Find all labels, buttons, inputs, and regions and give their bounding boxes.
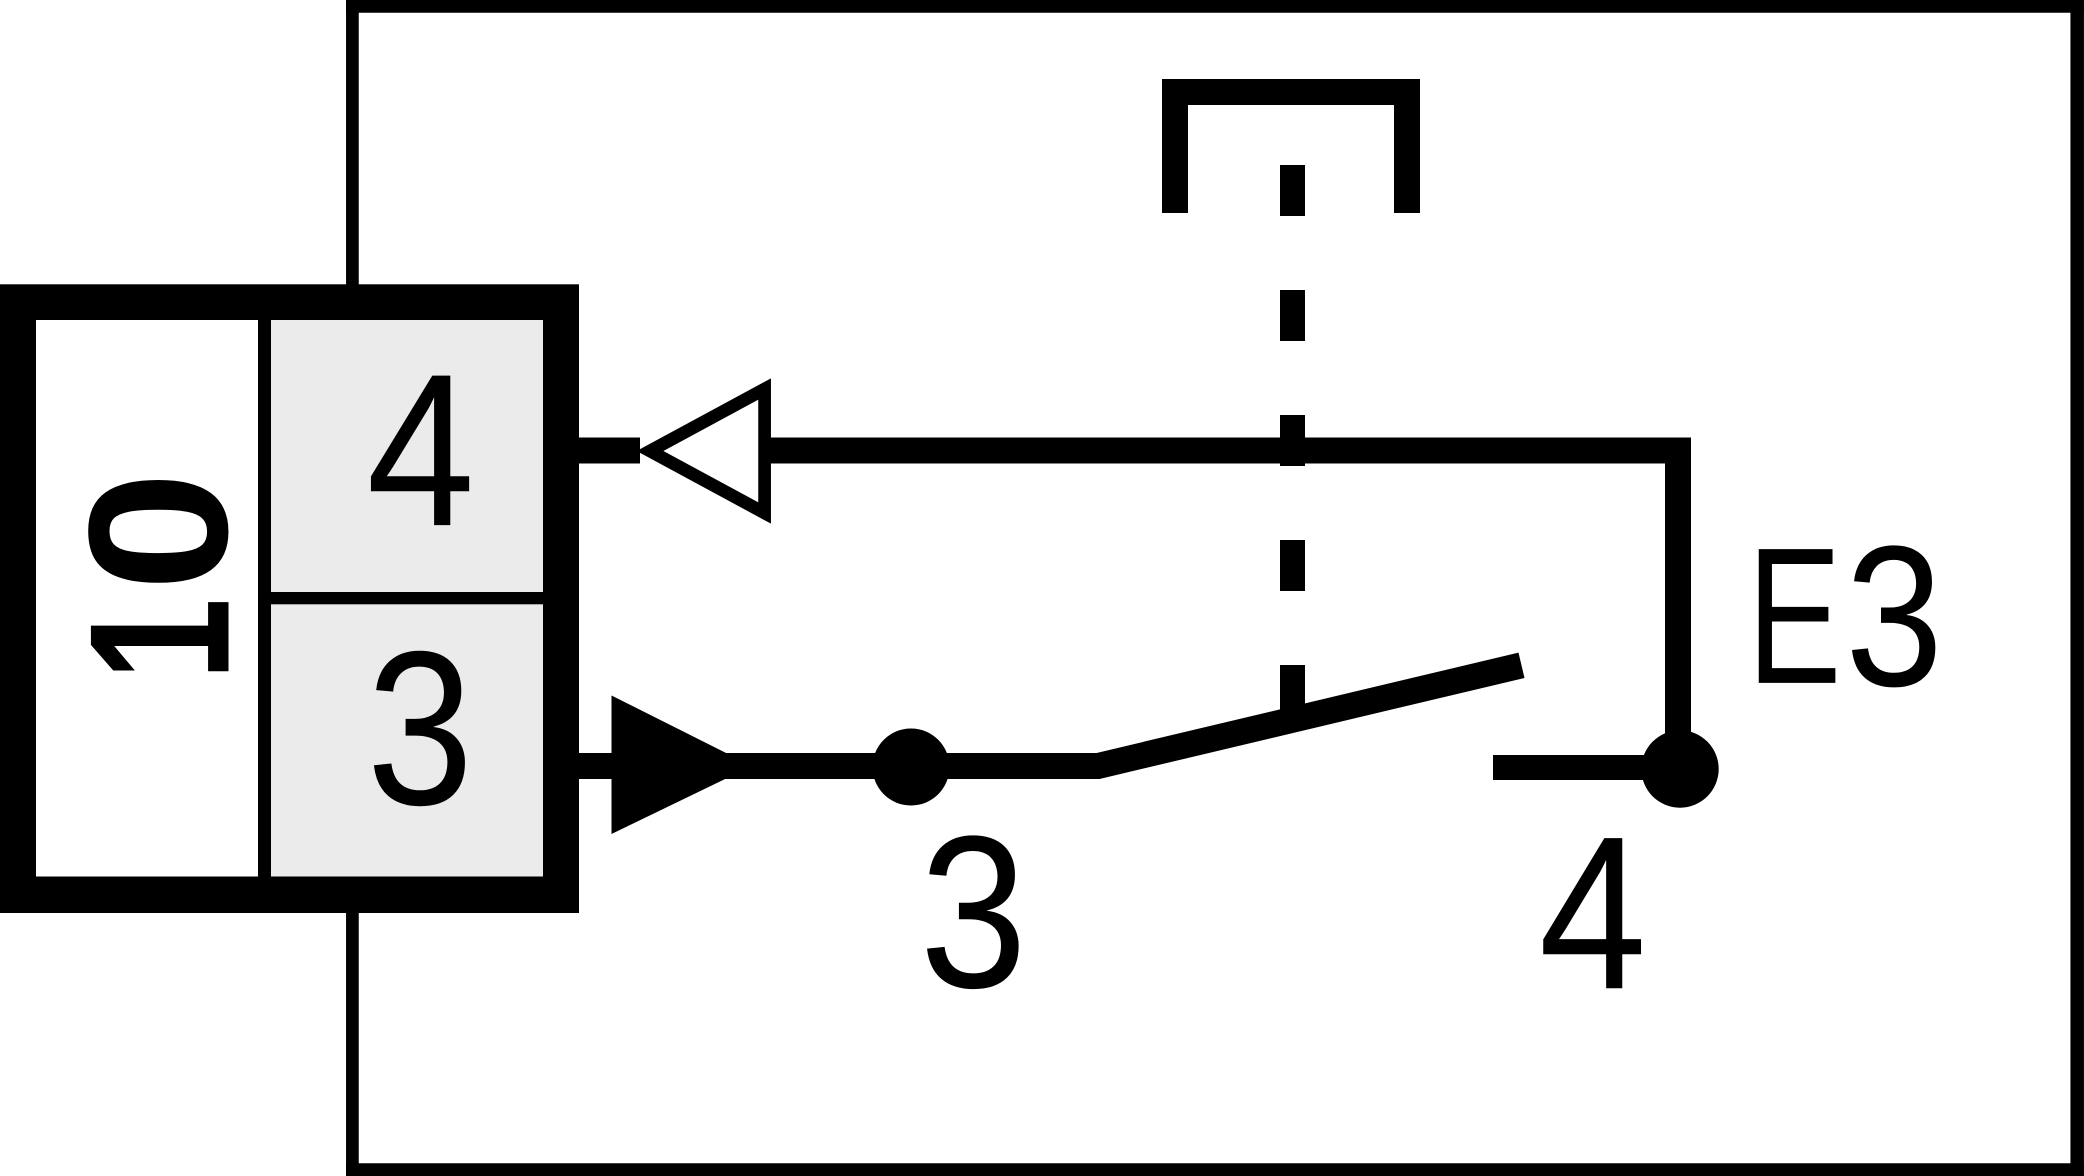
terminal block body [0, 284, 579, 913]
svg-text:3: 3 [920, 790, 1027, 1033]
actuator bracket [1175, 92, 1407, 213]
contact node 4 [1641, 730, 1718, 807]
svg-text:3: 3 [367, 605, 474, 851]
wire: terminal 3 to contact 3 and switch blade (NO contact, open) [579, 665, 1522, 766]
svg-text:E: E [1747, 508, 1841, 725]
svg-text:1: 1 [48, 598, 272, 681]
svg-text:4: 4 [1539, 791, 1647, 1035]
wire stub at contact 4 [1493, 755, 1680, 780]
svg-text:0: 0 [47, 471, 269, 591]
svg-text:3: 3 [1845, 504, 1943, 728]
actuator dashed link [1280, 165, 1305, 716]
contact label E3 [1747, 504, 1943, 728]
wire: terminal 4 to contact 4 [579, 451, 1678, 770]
contact node 3 [873, 729, 950, 806]
direction arrow on wire 3 (filled triangle) [612, 696, 753, 835]
svg-text:4: 4 [366, 328, 474, 571]
direction arrow on wire 4 (open triangle) [650, 389, 765, 513]
